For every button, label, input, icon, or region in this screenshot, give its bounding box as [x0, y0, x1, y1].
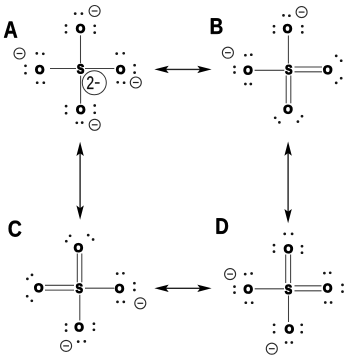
structure B top O: lone pair left — [273, 25, 276, 34]
structure A right O: lone pair above — [115, 52, 125, 55]
structure C right O: lone pair right — [133, 282, 136, 292]
structure C bottom O: lone pair below — [77, 340, 86, 343]
label D — [217, 218, 229, 234]
structure C: sulfur atom S — [76, 284, 83, 293]
resonance arrow C-D (double headed, horizontal) — [154, 285, 211, 292]
structure D top O: lone pair right — [301, 245, 304, 254]
structure D right O: lone pair above — [323, 271, 332, 274]
structure C: single bond S-O right — [85, 287, 114, 289]
structure D left O: minus charge — [225, 269, 236, 280]
structure A top O: minus charge — [89, 6, 100, 17]
structure A bottom O: lone pair left — [65, 105, 68, 115]
structure B left O: lone pair left — [233, 66, 236, 74]
structure D: top oxygen O — [284, 245, 292, 254]
structure C bottom O: minus charge — [61, 340, 72, 351]
structure A: sulfur atom S — [77, 64, 84, 73]
structure A: single bond S-O bottom — [80, 76, 82, 104]
structure D top O: lone pair above — [283, 233, 293, 236]
structure D: single bond S-O bottom — [288, 296, 290, 323]
structure A bottom O: lone pair below — [75, 121, 83, 124]
structure D: single bond S-O left — [255, 288, 284, 290]
structure C: single bond S-O bottom — [79, 295, 81, 321]
label B — [211, 18, 223, 34]
structure D: double bond S=O top — [286, 255, 291, 284]
structure D left O: lone pair left — [233, 285, 236, 294]
structure A left O: lone pair below — [36, 81, 45, 84]
structure A: 2- charge minus sign — [95, 82, 100, 84]
structure A: 2- charge circle — [82, 71, 106, 95]
structure B: bottom oxygen O — [284, 105, 292, 114]
structure B left O: lone pair above — [244, 53, 253, 56]
structure C: right oxygen O — [115, 284, 123, 293]
structure A: single bond S-O right — [85, 68, 114, 70]
structure B: left oxygen O — [244, 66, 252, 75]
structure D top O: lone pair left — [273, 244, 276, 253]
structure A right O: lone pair right — [133, 64, 136, 74]
structure C: bottom oxygen O — [75, 323, 83, 332]
structure D: bottom oxygen O — [285, 325, 293, 334]
structure B: single bond S-O left — [255, 69, 285, 71]
structure A top O: lone pair above — [74, 12, 83, 15]
structure C right O: lone pair above — [116, 272, 125, 275]
structure D: double bond S=O right — [295, 286, 322, 291]
structure B: single bond S-O top — [287, 36, 289, 64]
structure C: double bond S=O left — [45, 285, 74, 290]
structure A: right oxygen O — [116, 65, 124, 74]
structure A: single bond S-O left — [50, 68, 76, 70]
structure C: double bond S=O top — [77, 254, 82, 283]
structure B left O: lone pair below — [244, 83, 252, 86]
structure C right O: lone pair below — [116, 301, 125, 304]
structure B top O: lone pair right — [301, 25, 304, 34]
structure A bottom O: lone pair right — [93, 104, 96, 114]
resonance arrow A-C (double headed, vertical) — [76, 142, 83, 220]
structure D: sulfur atom S — [285, 285, 292, 294]
structure A: bottom oxygen O — [77, 105, 85, 114]
structure D: left oxygen O — [244, 285, 252, 294]
structure C bottom O: lone pair right — [93, 322, 96, 331]
structure B right O: lone pair lower-right — [335, 77, 343, 84]
structure B bottom O: lone pair lower-right — [297, 115, 304, 123]
resonance arrow B-D (double headed, vertical) — [284, 142, 291, 224]
structure A: 2- charge digit 2 — [87, 76, 93, 89]
structure B top O: lone pair above — [282, 14, 291, 17]
structure C: left oxygen O — [35, 284, 43, 293]
structure A right O: minus charge — [130, 77, 141, 88]
structure B right O: lone pair upper-right — [335, 55, 343, 63]
structure D right O: lone pair right — [341, 284, 344, 293]
structure A top O: lone pair right — [93, 24, 96, 33]
structure D bottom O: lone pair right — [300, 323, 303, 333]
structure D: right oxygen O — [323, 284, 331, 293]
structure B: sulfur atom S — [285, 65, 292, 74]
structure D bottom O: lone pair left — [273, 323, 276, 333]
structure A: single bond S-O top — [80, 35, 82, 63]
structure A top O: lone pair left — [65, 24, 68, 33]
structure B left O: minus charge — [222, 47, 233, 58]
structure B: double bond S=O bottom — [286, 76, 291, 104]
structure C top O: lone pair upper-right — [87, 234, 95, 241]
structure D bottom O: minus charge — [266, 343, 277, 354]
structure D left O: lone pair above — [244, 272, 253, 275]
label C — [9, 221, 22, 237]
structure B: double bond S=O right — [295, 67, 323, 72]
structure D bottom O: lone pair below — [285, 341, 293, 344]
structure D left O: lone pair below — [244, 301, 253, 304]
structure A left O: lone pair above — [35, 52, 44, 55]
structure A left O: lone pair left — [24, 64, 27, 74]
structure A: left oxygen O — [36, 65, 44, 74]
structure B: top oxygen O — [283, 24, 291, 32]
structure C bottom O: lone pair left — [65, 323, 68, 332]
structure B bottom O: lone pair lower-left — [274, 116, 281, 123]
structure D right O: lone pair below — [324, 301, 333, 304]
structure C top O: lone pair upper-left — [65, 234, 71, 242]
structure B top O: minus charge — [296, 7, 307, 18]
structure C left O: lone pair lower-left — [26, 295, 33, 302]
label A — [4, 22, 17, 38]
structure C right O: minus charge — [135, 298, 146, 309]
structure A right O: lone pair below — [116, 81, 125, 84]
structure A bottom O: minus charge — [89, 119, 100, 130]
structure A: top oxygen O — [76, 24, 84, 33]
structure C: top oxygen O — [74, 243, 82, 252]
structure A left O: minus charge — [14, 48, 25, 59]
structure B: right oxygen O — [324, 66, 332, 75]
structure C left O: lone pair upper-left — [26, 274, 33, 281]
resonance arrow A-B (double headed, horizontal) — [154, 66, 211, 73]
